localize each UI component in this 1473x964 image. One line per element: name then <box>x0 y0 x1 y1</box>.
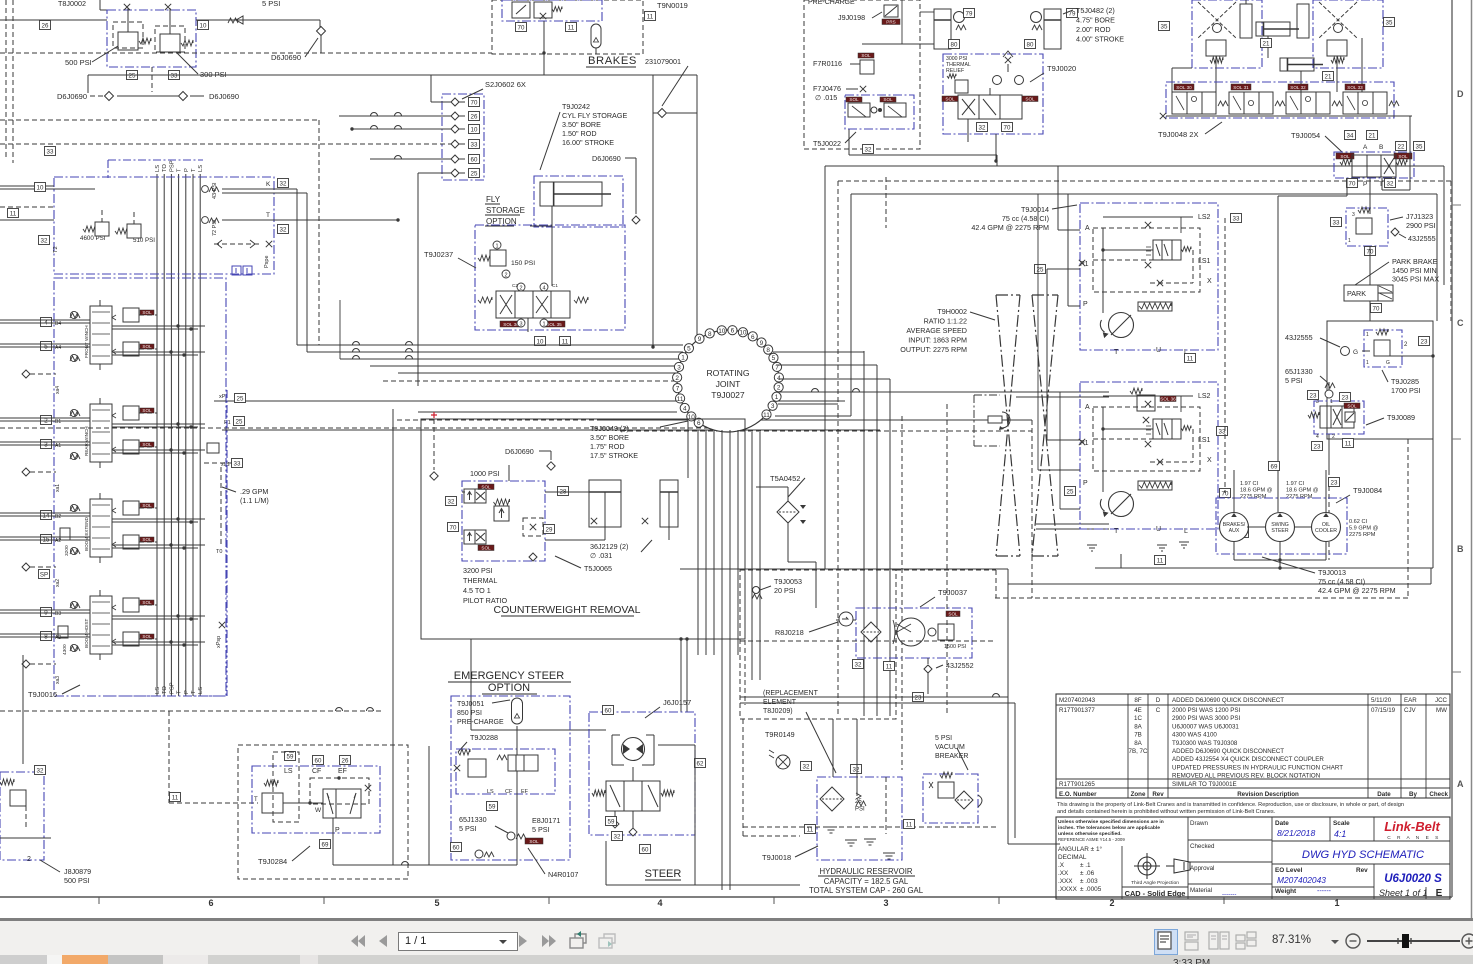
rj port L10 <box>687 412 696 421</box>
leader <box>970 312 995 320</box>
directional valve boom extend bus taps <box>112 518 205 520</box>
svg-text:4:1: 4:1 <box>1334 829 1346 839</box>
svg-text:P: P <box>1083 480 1088 487</box>
svg-text:6: 6 <box>697 420 701 427</box>
motor bottom bus <box>1234 559 1326 561</box>
dashed rail y711 <box>0 710 381 712</box>
left entry wires <box>0 185 54 187</box>
svg-text:R17T901377: R17T901377 <box>1059 707 1095 714</box>
leader <box>1205 122 1222 134</box>
svg-text:DECIMAL: DECIMAL <box>1058 854 1087 861</box>
ref 33 <box>45 147 56 156</box>
svg-text:Checked: Checked <box>1190 843 1215 850</box>
title block lower frame <box>1056 817 1450 899</box>
svg-text:T0: T0 <box>216 549 222 555</box>
svg-text:5: 5 <box>687 346 691 353</box>
top right outrigger group 2 <box>1313 0 1383 68</box>
svg-text:BOOM EXTEND: BOOM EXTEND <box>84 516 89 551</box>
brake manifold dashed enclosure <box>492 0 643 54</box>
svg-text:11: 11 <box>10 211 17 218</box>
svg-text:25: 25 <box>1067 489 1074 496</box>
J8J0879 relief bottom-left <box>0 772 44 860</box>
directional valve front winch <box>90 306 112 364</box>
svg-text:ANGULAR ± 1°: ANGULAR ± 1° <box>1058 845 1103 853</box>
svg-text:21: 21 <box>1369 133 1376 140</box>
svg-text:CYL FLY STORAGE: CYL FLY STORAGE <box>562 111 627 120</box>
ref box 26 <box>40 21 51 30</box>
svg-text:∅ .015: ∅ .015 <box>815 93 837 102</box>
ref 23 a <box>1308 391 1319 400</box>
svg-text:2: 2 <box>1332 434 1335 440</box>
svg-text:2275 RPM: 2275 RPM <box>1286 494 1313 500</box>
ref 79b <box>1067 9 1078 18</box>
svg-text:60: 60 <box>642 847 649 854</box>
rj port R5 <box>769 353 778 362</box>
zoom in button (clipped) <box>1461 933 1473 950</box>
underline <box>818 875 915 877</box>
connector port 26 <box>451 112 459 120</box>
svg-text:T9J0014: T9J0014 <box>1021 205 1049 214</box>
wires below valve <box>527 318 529 332</box>
svg-text:80: 80 <box>951 42 958 49</box>
inner blue box <box>456 749 555 794</box>
drive shaft upper <box>1016 391 1109 393</box>
svg-text:TOTAL SYSTEM CAP - 260 GAL: TOTAL SYSTEM CAP - 260 GAL <box>809 886 924 895</box>
svg-text:1: 1 <box>681 354 685 361</box>
svg-text:P: P <box>1083 301 1088 308</box>
leader 231079001 <box>662 66 688 106</box>
svg-text:25: 25 <box>236 419 243 426</box>
svg-text:4E: 4E <box>1134 707 1142 714</box>
LS dashed drop <box>1224 218 1226 493</box>
ref 80b <box>1025 40 1036 49</box>
ctrl valve <box>508 755 538 771</box>
svg-text:ROTATING: ROTATING <box>706 368 749 378</box>
view mode icon 4 <box>1235 931 1257 951</box>
svg-text:U: U <box>1156 347 1161 354</box>
svg-text:10: 10 <box>37 185 44 192</box>
brake circuit wires <box>1328 382 1330 390</box>
svg-text:AUX: AUX <box>1229 528 1240 534</box>
quick disconnect D6J0690 top <box>317 27 326 36</box>
ref 23 c <box>1312 442 1323 451</box>
rj port L9 <box>695 334 704 343</box>
svg-text:xP: xP <box>219 394 226 400</box>
pump group lower T9J0013 <box>1080 382 1218 529</box>
svg-text:A4: A4 <box>55 345 61 351</box>
sol valve row unit 3 <box>1288 84 1308 90</box>
shaft in <box>1094 391 1109 393</box>
qd 43J2552 <box>924 665 932 673</box>
ref 70 v <box>1347 179 1358 188</box>
ref 22 <box>1396 142 1407 151</box>
u2 <box>485 214 520 216</box>
ref box 25 <box>127 71 138 80</box>
nav next button <box>518 933 530 949</box>
leader <box>645 707 660 718</box>
svg-text:EF: EF <box>338 768 347 775</box>
long dashed rail 2 <box>0 427 740 429</box>
leader <box>458 258 476 268</box>
svg-text:850 PSI: 850 PSI <box>457 710 482 717</box>
fly storage cylinder box <box>534 176 623 227</box>
P1 wire 2 <box>1038 469 1080 471</box>
ref 11 v <box>1343 439 1354 448</box>
ref 23 r <box>1419 337 1430 346</box>
t8j0209 leader <box>806 712 836 773</box>
revision table row lines <box>1056 704 1450 706</box>
filter T5A0452 <box>777 501 799 523</box>
rv dashed2 <box>946 404 948 716</box>
pump group lower T9J0013 servo <box>1138 481 1172 490</box>
svg-text:T9J0288: T9J0288 <box>470 733 498 742</box>
motor link rails <box>1247 526 1265 528</box>
svg-text:1: 1 <box>1348 238 1351 244</box>
ref box 33 <box>469 140 480 149</box>
rect brake circuit <box>1327 321 1433 439</box>
ref 26 <box>340 756 351 765</box>
ref 60b <box>451 843 462 852</box>
connector port 33 <box>451 140 459 148</box>
rj port T6 <box>728 326 737 335</box>
rj down wire 7 <box>751 432 753 680</box>
directional valve boom hoist pilot valves <box>123 598 139 612</box>
svg-text:STORAGE: STORAGE <box>486 206 525 215</box>
D6J0690 disconnect pair left <box>90 95 104 97</box>
svg-text:ADDED 43J2554 X4 QUICK DISCONN: ADDED 43J2554 X4 QUICK DISCONNECT COUPLE… <box>1172 756 1324 763</box>
return bottom <box>1008 843 1060 845</box>
ref box 70 <box>516 23 527 32</box>
svg-text:E: E <box>1436 888 1443 899</box>
leader <box>495 826 508 833</box>
K wire <box>222 188 297 190</box>
svg-text:70: 70 <box>471 100 478 107</box>
svg-text:4.5 TO 1: 4.5 TO 1 <box>463 586 491 595</box>
svg-text:T9N0019: T9N0019 <box>657 1 688 10</box>
steer blue box <box>589 712 695 835</box>
svg-text:1450 PSI MIN: 1450 PSI MIN <box>1392 266 1437 275</box>
svg-text:P: P <box>184 168 190 172</box>
svg-text:SOL: SOL <box>142 310 152 315</box>
svg-text:C: C <box>1156 707 1161 714</box>
svg-text:JOINT: JOINT <box>716 379 742 389</box>
svg-text:6: 6 <box>731 328 735 335</box>
svg-text:11: 11 <box>568 25 575 32</box>
svg-text:1500 PSI: 1500 PSI <box>944 644 966 650</box>
svg-text:R17T901265: R17T901265 <box>1059 781 1095 788</box>
u1 <box>485 203 500 205</box>
svg-text:60: 60 <box>471 157 478 164</box>
svg-text:231079001: 231079001 <box>645 57 681 66</box>
T9J0020 4-way <box>958 95 1022 119</box>
svg-text:C1: C1 <box>552 283 558 288</box>
svg-text:18.6 GPM @: 18.6 GPM @ <box>1286 488 1319 494</box>
pump group lower T9J0013 internal wires <box>1102 407 1104 492</box>
svg-text:5 PSI: 5 PSI <box>935 735 952 742</box>
leader <box>760 586 771 590</box>
svg-text:LS: LS <box>155 687 161 694</box>
svg-text:2: 2 <box>675 375 679 382</box>
rv dashed <box>901 416 903 770</box>
bus jog marks <box>353 342 360 345</box>
cw wires <box>545 491 589 493</box>
leader 500 PSI <box>92 46 118 62</box>
ref 32a <box>278 179 289 188</box>
cylinder T9J0242 <box>540 182 611 206</box>
svg-text:3: 3 <box>883 898 888 908</box>
svg-text:59: 59 <box>608 819 615 826</box>
svg-text:2: 2 <box>27 856 31 863</box>
svg-text:T9J0048 2X: T9J0048 2X <box>1158 130 1198 139</box>
leader <box>1366 418 1384 425</box>
svg-text:T9J0016: T9J0016 <box>28 690 57 699</box>
ref 25 p2 <box>1065 487 1076 496</box>
svg-text:T9J0020: T9J0020 <box>1047 64 1076 73</box>
directional valve rear winch check W top <box>70 409 77 416</box>
ref 80 <box>949 40 960 49</box>
leader <box>845 132 856 143</box>
leader <box>920 597 935 607</box>
svg-text:5: 5 <box>772 355 776 362</box>
leader T9J0242 <box>540 112 560 170</box>
svg-text:T: T <box>177 690 183 694</box>
gauge R8J0218 <box>839 612 853 626</box>
directional valve boom hoist <box>90 596 112 654</box>
svg-text:SOL: SOL <box>1340 154 1350 159</box>
svg-text:3: 3 <box>677 364 681 371</box>
BRAKES underline <box>586 66 636 68</box>
priority valve <box>323 789 361 818</box>
svg-text:PRE-CHARGE: PRE-CHARGE <box>457 719 504 726</box>
svg-text:42.4 GPM @ 2275 RPM: 42.4 GPM @ 2275 RPM <box>971 223 1049 232</box>
svg-text:COOLER: COOLER <box>1315 528 1337 534</box>
windows taskbar strip <box>0 955 1473 964</box>
svg-text:JCC: JCC <box>1435 697 1448 704</box>
steer motor frame <box>611 735 613 765</box>
enclosure rect top rail <box>88 74 653 76</box>
bottom bus <box>606 884 800 886</box>
pre-charge wires <box>862 43 934 45</box>
svg-text:± .0005: ± .0005 <box>1080 886 1102 893</box>
sol maroon <box>525 838 543 844</box>
svg-text:11: 11 <box>172 795 179 802</box>
wire to 5 PSI check <box>196 19 320 21</box>
ref box 25 <box>469 169 480 178</box>
ref 28 <box>558 487 569 496</box>
reservoir dash col <box>885 777 887 834</box>
svg-text:25: 25 <box>237 396 244 403</box>
reservoir filter <box>820 787 844 811</box>
svg-text:Date: Date <box>1377 791 1391 798</box>
svg-text:3.50" BORE: 3.50" BORE <box>562 120 601 129</box>
svg-text:75 cc (4.58 CI): 75 cc (4.58 CI) <box>1318 577 1365 586</box>
svg-text:Third Angle Projection: Third Angle Projection <box>1131 880 1179 886</box>
svg-text:LS: LS <box>198 165 204 172</box>
steer valve <box>606 781 660 811</box>
svg-text:1.50" ROD: 1.50" ROD <box>562 129 597 138</box>
svg-text:W: W <box>315 807 322 814</box>
ref 25 p1 <box>1035 265 1046 274</box>
svg-text:36J2129 (2): 36J2129 (2) <box>590 542 628 551</box>
motor oil cooler <box>1312 513 1341 542</box>
svg-text:UPDATED PRESSURES IN HYDRAULIC: UPDATED PRESSURES IN HYDRAULIC FUNCTION … <box>1172 764 1343 771</box>
svg-text:3200: 3200 <box>64 545 70 556</box>
leader 300 PSI <box>176 52 198 74</box>
cooler filter <box>861 622 881 642</box>
xLS branch <box>207 443 219 453</box>
svg-text:8: 8 <box>708 331 712 338</box>
svg-text:LS2: LS2 <box>1198 393 1211 400</box>
steer drop <box>694 835 696 885</box>
zoom out button <box>1345 933 1362 950</box>
T0 drop <box>220 467 222 545</box>
svg-text:xa1: xa1 <box>55 484 61 492</box>
u <box>448 681 571 683</box>
wire cyl to valve <box>551 206 553 286</box>
ref 33 p2 <box>1217 427 1228 436</box>
ref 11 res <box>805 825 816 834</box>
ref box 70 <box>469 98 480 107</box>
brake valve group <box>502 0 602 21</box>
enclosure left stub <box>87 75 89 93</box>
vb filter <box>955 791 973 809</box>
rj port L4 <box>680 403 689 412</box>
zone ticks bottom <box>98 897 100 904</box>
svg-text:2275 RPM: 2275 RPM <box>1240 494 1267 500</box>
ref 69 m <box>1269 462 1280 471</box>
ref box 10 <box>535 337 546 346</box>
port 33 wire dashed <box>0 143 451 145</box>
svg-text:1: 1 <box>775 394 779 401</box>
ref SP <box>39 570 50 579</box>
ref 62 <box>695 759 706 768</box>
svg-text:C2: C2 <box>512 283 518 288</box>
svg-text:2: 2 <box>519 286 522 292</box>
P1 line <box>222 429 880 431</box>
rj port L7 <box>673 383 682 392</box>
drop <box>1279 560 1281 568</box>
svg-text:A: A <box>1457 779 1464 789</box>
svg-text:TO: TO <box>162 686 168 694</box>
sol tag left <box>500 321 522 327</box>
svg-text:1000 PSI: 1000 PSI <box>470 469 500 478</box>
svg-text:T: T <box>1114 349 1119 356</box>
leader <box>1262 557 1315 573</box>
svg-text:HYDRAULIC RESERVOIR: HYDRAULIC RESERVOIR <box>819 867 912 876</box>
svg-text:Weight: Weight <box>1275 888 1297 895</box>
svg-text:PSP: PSP <box>169 682 175 694</box>
svg-text:75 cc (4.58 CI): 75 cc (4.58 CI) <box>1002 214 1049 223</box>
spring r <box>574 297 588 303</box>
leader <box>795 846 818 857</box>
svg-text:F7J0476: F7J0476 <box>813 84 841 93</box>
svg-text:11: 11 <box>1187 356 1194 363</box>
directional valve boom hoist bus taps <box>112 615 205 617</box>
rj down wire 8 <box>759 432 761 680</box>
svg-text:T9J0051: T9J0051 <box>457 701 484 708</box>
svg-text:SOL: SOL <box>142 503 152 508</box>
svg-text:11: 11 <box>677 396 684 403</box>
A drop 1 <box>1057 166 1059 230</box>
svg-text:34: 34 <box>1347 133 1354 140</box>
view mode icon 3 <box>1208 931 1230 951</box>
4-way valve T9J0237 <box>496 291 570 318</box>
upper relief extra <box>1137 395 1155 411</box>
return h2 <box>740 702 1015 704</box>
ref 32b <box>278 225 289 234</box>
svg-text:T9H0002: T9H0002 <box>937 307 967 316</box>
svg-text:T5J0022: T5J0022 <box>813 139 841 148</box>
port 25 wire <box>418 172 451 174</box>
connector port 60 <box>451 155 459 163</box>
ref 23 cool <box>913 693 924 702</box>
dash corner ext <box>995 570 997 598</box>
arr2 <box>500 295 512 314</box>
ground U syms <box>1157 545 1167 551</box>
svg-text:Check: Check <box>1429 791 1448 798</box>
ref 11 t9j0284 <box>170 793 181 802</box>
screen right edge <box>1471 0 1473 920</box>
cooler relief <box>938 624 954 640</box>
svg-text:70: 70 <box>1373 306 1380 313</box>
svg-text:11: 11 <box>807 827 814 834</box>
ref box 60 <box>469 155 480 164</box>
nav last button <box>541 933 559 949</box>
directional valve rear winch check W bottom <box>70 452 77 459</box>
svg-text:OUTPUT: 2275 RPM: OUTPUT: 2275 RPM <box>900 345 967 354</box>
svg-text:Sheet 1 of 1: Sheet 1 of 1 <box>1379 888 1428 898</box>
svg-text:T9J0018: T9J0018 <box>762 853 791 862</box>
svg-text:U6J0007 WAS U6J0031: U6J0007 WAS U6J0031 <box>1172 723 1239 730</box>
svg-text:SP: SP <box>40 572 48 579</box>
svg-text:23: 23 <box>1342 395 1349 402</box>
cw cylinders <box>589 480 621 540</box>
top right outrigger group 1 <box>1192 0 1262 68</box>
svg-text:T9R0149: T9R0149 <box>765 730 795 739</box>
T9J0054 wires <box>1369 178 1371 214</box>
rj right wire 6 <box>775 415 851 417</box>
ref 60c <box>640 845 651 854</box>
rj port L6 <box>694 418 703 427</box>
svg-text:1.97 CI: 1.97 CI <box>1286 481 1304 487</box>
wire brake drop <box>543 21 545 75</box>
svg-text:65J1330: 65J1330 <box>1285 367 1313 376</box>
svg-text:BREAKER: BREAKER <box>935 753 968 760</box>
park relief J7J1323 <box>1346 208 1388 246</box>
zoom percent <box>1272 934 1311 946</box>
svg-text:2900 PSI WAS 3000 PSI: 2900 PSI WAS 3000 PSI <box>1172 715 1240 722</box>
svg-text:7B, 7C: 7B, 7C <box>1129 748 1148 755</box>
svg-text:35: 35 <box>1386 20 1393 27</box>
svg-text:Link-Belt: Link-Belt <box>1384 819 1440 834</box>
og1 piston <box>1240 4 1252 38</box>
leader <box>872 12 882 18</box>
svg-text:42.4 GPM @ 2275 RPM: 42.4 GPM @ 2275 RPM <box>1318 586 1396 595</box>
motor circles blue box <box>1216 498 1347 554</box>
t9j0020 drop <box>967 119 969 142</box>
svg-text:K: K <box>266 181 271 188</box>
steer valve ports <box>614 811 616 827</box>
arrow line <box>846 88 858 90</box>
bank bottom blue edge <box>108 695 228 697</box>
rv3 <box>889 379 891 716</box>
svg-text:SOL: SOL <box>142 442 152 447</box>
svg-text:ADDED D6J0690 QUICK DISCONNECT: ADDED D6J0690 QUICK DISCONNECT <box>1172 748 1284 755</box>
svg-text:1: 1 <box>495 244 498 250</box>
svg-text:Scale: Scale <box>1333 820 1350 827</box>
svg-text:D6J0690: D6J0690 <box>271 53 301 62</box>
leader <box>62 685 80 694</box>
